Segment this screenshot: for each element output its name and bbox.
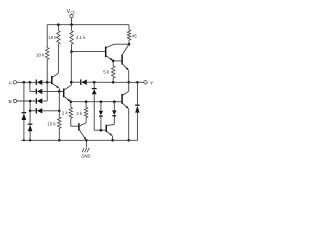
svg-text:5 k: 5 k [103,70,110,75]
svg-text:B: B [9,99,12,105]
svg-text:2 k: 2 k [62,111,69,116]
svg-text:10 k: 10 k [48,35,57,40]
svg-text:3 k: 3 k [76,111,83,116]
svg-text:15 k: 15 k [47,121,56,126]
svg-text:4.1 k: 4.1 k [76,35,86,40]
svg-text:GND: GND [81,153,90,158]
svg-text:10 k: 10 k [36,52,45,57]
svg-text:45: 45 [132,33,137,38]
